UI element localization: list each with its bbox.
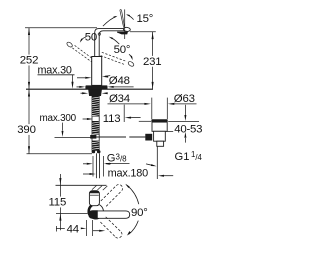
svg-text:231: 231 xyxy=(143,56,161,68)
svg-text:44: 44 xyxy=(67,223,79,235)
svg-text:113: 113 xyxy=(103,113,121,125)
svg-text:40-53: 40-53 xyxy=(174,124,202,136)
svg-text:Ø34: Ø34 xyxy=(109,93,130,105)
svg-text:50°: 50° xyxy=(85,32,102,44)
svg-text:252: 252 xyxy=(20,55,38,67)
svg-text:Ø48: Ø48 xyxy=(109,75,130,87)
svg-text:50°: 50° xyxy=(114,44,131,56)
svg-text:Ø63: Ø63 xyxy=(174,93,195,105)
svg-text:max.180: max.180 xyxy=(108,168,149,180)
svg-text:390: 390 xyxy=(17,124,35,136)
svg-text:115: 115 xyxy=(49,197,67,209)
svg-text:max.300: max.300 xyxy=(40,113,77,124)
svg-text:90°: 90° xyxy=(131,207,148,219)
svg-text:15°: 15° xyxy=(137,13,154,25)
